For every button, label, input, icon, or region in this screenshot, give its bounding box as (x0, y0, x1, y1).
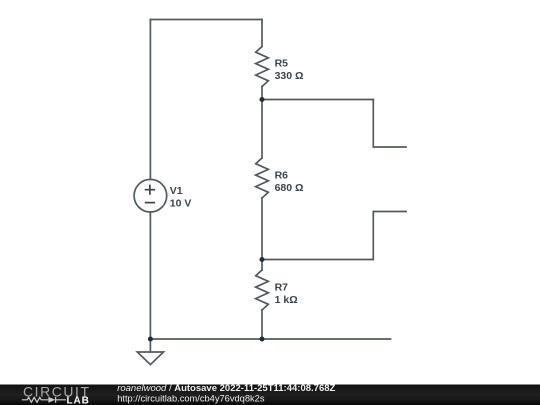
logo resistor zigzag (22, 397, 49, 402)
svg-text:roanelwood / Autosave 2022-11-: roanelwood / Autosave 2022-11-25T11:44:0… (117, 383, 335, 394)
wire left rail upper (149, 20, 151, 180)
node B dot (260, 257, 265, 262)
footer bar (0, 385, 540, 405)
svg-text:http://circuitlab.com/cb4y76vd: http://circuitlab.com/cb4y76vdq8k2s (117, 394, 265, 404)
svg-text:330 Ω: 330 Ω (275, 70, 304, 82)
V1 minus sign (145, 202, 155, 204)
logo diode triangle (48, 397, 55, 403)
svg-text:V1: V1 (170, 185, 183, 197)
svg-text:10 V: 10 V (170, 197, 192, 209)
svg-text:R5: R5 (275, 58, 289, 70)
wire right rail above R5 (261, 20, 263, 47)
wire stub from node B (262, 212, 406, 260)
svg-text:680 Ω: 680 Ω (275, 182, 304, 194)
wire left rail lower (149, 212, 151, 339)
logo diode (56, 397, 66, 403)
node ground-right dot (260, 337, 265, 342)
wire stub from node A (262, 100, 406, 148)
resistor R5 (256, 47, 269, 87)
wire right rail below R7 (261, 310, 263, 339)
voltage source V1 circle (134, 179, 167, 212)
wire right rail R5 to R6 (261, 87, 263, 159)
V1 plus sign (145, 185, 155, 195)
svg-text:R7: R7 (275, 282, 289, 294)
resistor R7 (256, 270, 269, 310)
svg-text:LAB: LAB (67, 395, 90, 405)
svg-text:1 kΩ: 1 kΩ (275, 294, 298, 306)
wire top (150, 19, 262, 21)
wire right rail R6 to R7 (261, 198, 263, 270)
ground triangle (137, 352, 163, 365)
ground stem (149, 339, 151, 352)
svg-text:R6: R6 (275, 170, 289, 182)
resistor R6 (256, 158, 269, 198)
node ground-left dot (148, 337, 153, 342)
wire bottom (150, 338, 390, 340)
node A dot (260, 97, 265, 102)
